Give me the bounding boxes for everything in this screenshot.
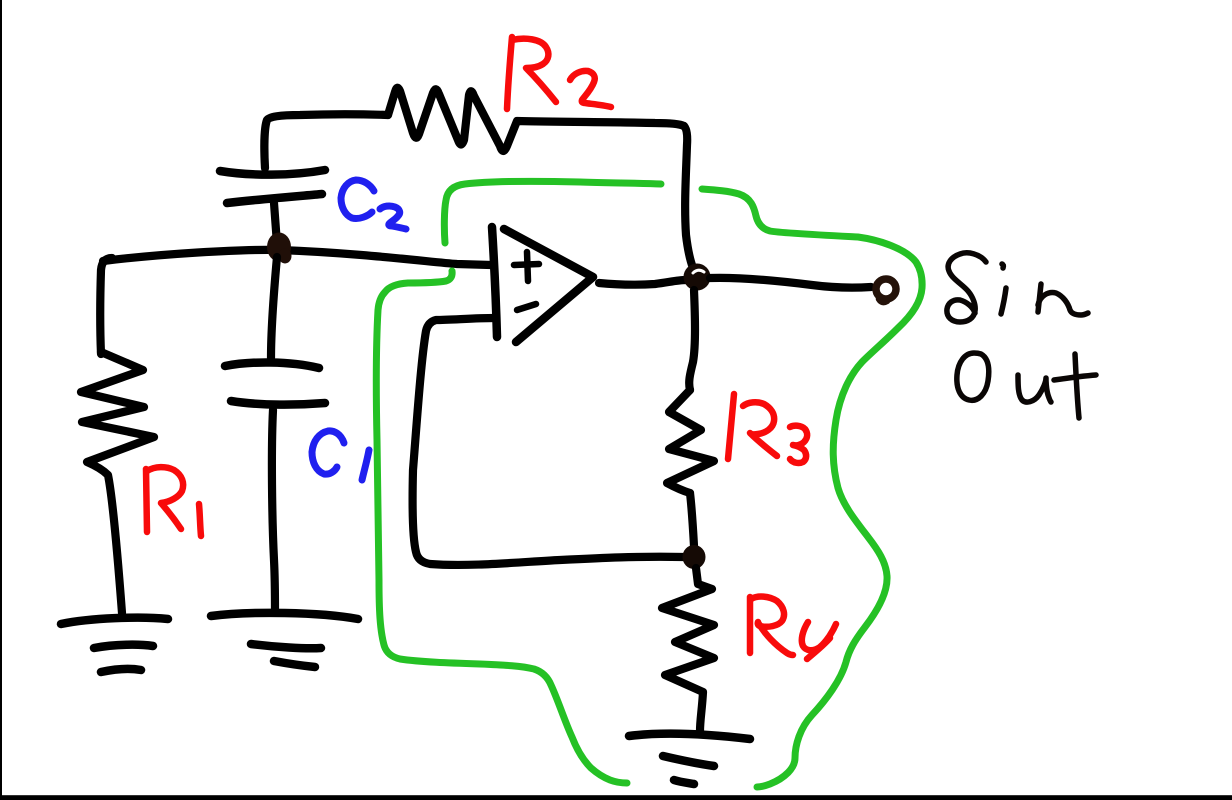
wire: R2 right vertical down to output node (684, 126, 693, 268)
label C2 (341, 180, 406, 229)
wire: node down to C1 (271, 257, 277, 358)
op-amp U1 minus (517, 304, 536, 310)
wire: output node down to R3 (689, 290, 695, 390)
label R3 (728, 394, 807, 463)
wire: output node to terminal (710, 278, 871, 288)
wire: op-amp output to node (599, 280, 686, 285)
node: R3/R4 junction (683, 545, 706, 569)
terminal: Sin Out (876, 279, 896, 299)
node: output junction (684, 264, 711, 291)
capacitor C1 (225, 362, 319, 368)
resistor R2 (388, 88, 684, 151)
wire: left vertical down to R1 (100, 258, 112, 354)
op-amp U1 input bar (492, 227, 497, 337)
wire: op-amp minus input feedback (413, 318, 683, 565)
ground (under R1) (61, 618, 168, 624)
op-amp U1 triangle (504, 229, 593, 342)
resistor R3 (667, 390, 714, 493)
ground (under R4) (629, 734, 750, 739)
highlight loop green: right arm (702, 189, 922, 787)
wire: C2 bottom lead to node (274, 203, 277, 244)
wire: C1 bottom lead (272, 410, 275, 612)
wire: main node horizontal to op-amp + input (103, 250, 491, 265)
label C1 (312, 431, 369, 480)
label Sin Out (947, 253, 1096, 418)
label R1 (146, 467, 201, 536)
highlight loop green: left arm (376, 271, 627, 783)
ground (under C1) (211, 613, 358, 619)
wire: R3 to junction (690, 493, 694, 546)
label R2 (507, 37, 611, 109)
label R4 (750, 597, 836, 659)
resistor R1 (81, 352, 154, 613)
op-amp U1 plus (514, 252, 539, 281)
highlight loop green: top arm (444, 181, 661, 243)
capacitor C2 (220, 170, 325, 175)
node: main junction (267, 233, 291, 262)
wire: C2 top lead and horizontal to R2 (264, 114, 388, 168)
resistor R4 (662, 568, 714, 731)
